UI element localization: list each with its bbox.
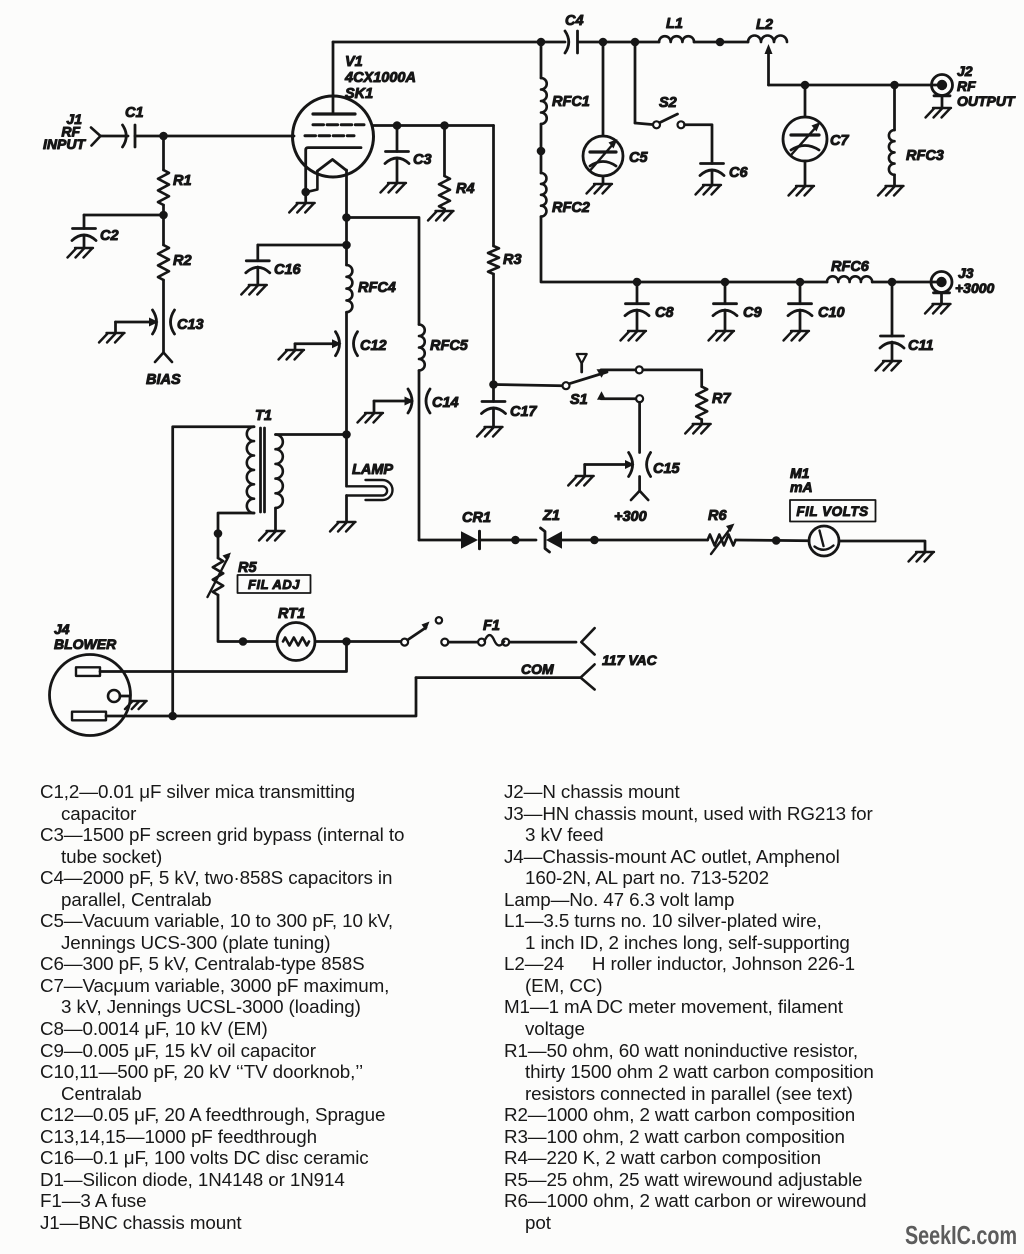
svg-text:Z1: Z1 xyxy=(542,508,560,524)
svg-text:RFC6: RFC6 xyxy=(831,259,870,275)
resistor R7 xyxy=(696,387,731,420)
wire xyxy=(638,402,641,452)
svg-text:INPUT: INPUT xyxy=(43,136,86,152)
svg-text:R3: R3 xyxy=(503,252,522,268)
wire xyxy=(893,175,896,186)
transformer T1 secondary xyxy=(276,435,283,509)
ground xyxy=(289,203,315,213)
junction arrowhead xyxy=(405,397,415,406)
wire xyxy=(694,41,748,44)
wire xyxy=(162,280,165,352)
node +300 terminal xyxy=(614,491,648,525)
svg-text:+3000: +3000 xyxy=(955,280,995,296)
capacitor C10 xyxy=(788,304,845,321)
wire xyxy=(700,420,703,425)
fuse F1 xyxy=(478,618,509,646)
svg-text:J3: J3 xyxy=(958,265,974,281)
svg-text:+300: +300 xyxy=(614,509,647,525)
node grid junction xyxy=(159,132,168,141)
wire xyxy=(101,135,129,138)
capacitor C2 xyxy=(72,228,119,244)
svg-text:C5: C5 xyxy=(629,150,648,166)
svg-text:FIL VOLTS: FIL VOLTS xyxy=(796,504,868,519)
capacitor C11 xyxy=(880,336,934,354)
svg-text:BLOWER: BLOWER xyxy=(54,636,117,652)
ground xyxy=(99,333,125,343)
wire xyxy=(295,342,333,345)
svg-text:V1: V1 xyxy=(345,54,363,70)
wire xyxy=(583,465,586,477)
wire xyxy=(345,312,348,434)
wire xyxy=(636,310,639,331)
node T1 primary bottom junction xyxy=(214,529,223,538)
wire xyxy=(602,42,605,136)
ground xyxy=(709,331,735,341)
node RFC5 branch junction xyxy=(342,213,351,222)
inductor L1 xyxy=(659,16,694,42)
node cathode junction xyxy=(301,188,310,197)
svg-text:R1: R1 xyxy=(173,173,192,189)
switch S1 pole xyxy=(563,372,608,408)
svg-text:LAMP: LAMP xyxy=(352,462,393,478)
zener Z1 xyxy=(541,508,563,552)
inductor RFC2 xyxy=(541,173,590,217)
node T1-lamp junction xyxy=(342,430,351,439)
connector J2 xyxy=(932,63,1017,109)
svg-text:R4: R4 xyxy=(456,181,475,197)
wire xyxy=(106,678,416,716)
wire xyxy=(416,676,580,679)
wire xyxy=(799,282,802,304)
svg-text:RFC4: RFC4 xyxy=(358,280,396,296)
switch S1 open position marker xyxy=(577,354,587,372)
svg-text:RFC5: RFC5 xyxy=(430,338,469,354)
svg-text:C9: C9 xyxy=(743,305,762,321)
capacitor C7 vacuum variable xyxy=(783,117,849,161)
svg-text:C14: C14 xyxy=(432,395,459,411)
wire xyxy=(304,192,307,203)
wire xyxy=(347,218,420,325)
ground xyxy=(784,331,810,341)
node lamp-line junction xyxy=(342,637,351,646)
svg-text:J4: J4 xyxy=(54,621,70,637)
svg-text:L2: L2 xyxy=(756,17,773,33)
wire xyxy=(448,641,478,644)
wire xyxy=(374,124,494,127)
node plate-RFC1 junction xyxy=(537,38,546,47)
svg-text:R5: R5 xyxy=(238,560,257,576)
node blower line junction xyxy=(168,712,177,721)
svg-text:S2: S2 xyxy=(659,95,677,111)
svg-text:R6: R6 xyxy=(708,508,727,524)
capacitor C14 feedthrough xyxy=(408,389,459,413)
wire xyxy=(100,642,347,672)
wire xyxy=(562,539,708,542)
wire xyxy=(492,385,495,402)
node C11 junction xyxy=(888,278,897,287)
svg-text:FIL ADJ: FIL ADJ xyxy=(248,577,300,592)
tube plate pin wire xyxy=(332,42,335,114)
wire xyxy=(891,342,894,361)
wire xyxy=(804,85,807,117)
ground xyxy=(381,183,407,193)
wire xyxy=(373,401,376,413)
wire xyxy=(83,235,86,248)
ground xyxy=(621,331,647,341)
node R1-R2 junction xyxy=(159,211,168,220)
capacitor C6 xyxy=(700,164,748,182)
svg-text:J2: J2 xyxy=(957,63,973,79)
svg-text:C12: C12 xyxy=(360,338,387,354)
inductor RFC3 xyxy=(889,85,944,175)
node R6-M1 junction xyxy=(772,536,781,545)
capacitor C17 xyxy=(482,402,538,421)
wire xyxy=(419,539,461,542)
svg-text:BIAS: BIAS xyxy=(146,372,181,388)
wire xyxy=(638,477,641,491)
ground xyxy=(685,424,711,434)
svg-text:RT1: RT1 xyxy=(278,606,305,622)
wire xyxy=(396,126,399,152)
wire xyxy=(443,209,446,211)
svg-text:C13: C13 xyxy=(177,317,204,333)
wire xyxy=(799,310,802,331)
inductor RFC6 xyxy=(827,259,872,282)
connector J1 RF INPUT xyxy=(43,111,101,152)
node S2 junction xyxy=(631,38,640,47)
capacitor C12 feedthrough xyxy=(336,332,387,356)
diode CR1 xyxy=(461,510,491,549)
node R4 junction xyxy=(440,121,449,130)
svg-text:RFC1: RFC1 xyxy=(552,94,590,110)
tube grid dashes row 2 xyxy=(305,134,354,137)
node R5-RT1 junction xyxy=(239,637,248,646)
svg-text:C6: C6 xyxy=(729,165,748,181)
node C7 junction xyxy=(801,81,810,90)
svg-text:117 VAC: 117 VAC xyxy=(602,652,658,668)
svg-text:RF: RF xyxy=(957,78,976,94)
tube plate bar xyxy=(313,112,355,115)
connector J4 blower outlet xyxy=(50,621,131,736)
capacitor C13 feedthrough xyxy=(153,310,204,334)
tube screen line and pin xyxy=(306,148,361,192)
capacitor C1 xyxy=(123,105,144,147)
svg-text:C1: C1 xyxy=(125,105,144,121)
ground xyxy=(789,186,815,196)
wire xyxy=(769,84,941,87)
svg-text:C16: C16 xyxy=(274,262,302,278)
svg-text:RFC3: RFC3 xyxy=(906,148,944,164)
node C8 junction xyxy=(633,278,642,287)
ground xyxy=(925,304,951,314)
wire xyxy=(294,344,297,350)
capacitor C4 xyxy=(565,13,584,53)
meter M1 xyxy=(790,465,839,556)
tube grid dashes row 1 xyxy=(313,123,364,126)
switch S1 throw 1 xyxy=(597,366,643,377)
svg-text:C3: C3 xyxy=(413,152,432,168)
capacitor C16 xyxy=(246,261,302,278)
ground xyxy=(68,248,94,258)
wire xyxy=(345,435,348,487)
wire xyxy=(480,539,537,542)
wire xyxy=(162,205,165,215)
wire xyxy=(114,322,117,333)
wire xyxy=(711,170,714,185)
wire xyxy=(637,281,827,284)
wire xyxy=(315,640,401,643)
wire xyxy=(839,541,925,552)
junction arrowhead xyxy=(625,460,635,469)
wire xyxy=(872,281,939,284)
svg-text:C11: C11 xyxy=(908,338,934,354)
wire xyxy=(736,539,809,543)
node Z1-R6 junction xyxy=(590,536,599,545)
wire xyxy=(333,41,565,44)
connector 117 VAC common xyxy=(521,661,595,690)
wire xyxy=(685,125,713,164)
ground xyxy=(259,531,285,541)
capacitor C3 xyxy=(385,152,432,169)
lamp pilot xyxy=(347,462,394,500)
ground xyxy=(696,185,722,195)
wire xyxy=(941,96,944,108)
parts list right column xyxy=(504,781,874,1233)
wire xyxy=(162,136,165,170)
inductor L2 roller xyxy=(748,17,787,42)
wire xyxy=(492,408,495,427)
svg-text:RFC2: RFC2 xyxy=(552,200,590,216)
ground xyxy=(568,476,594,486)
inductor RFC4 xyxy=(347,265,396,312)
svg-text:C10: C10 xyxy=(818,305,845,321)
node C3 junction xyxy=(393,121,402,130)
ground xyxy=(279,350,305,360)
svg-text:C17: C17 xyxy=(510,404,538,420)
svg-text:C2: C2 xyxy=(100,228,119,244)
capacitor C8 xyxy=(625,304,674,321)
wire xyxy=(116,321,151,324)
ground xyxy=(587,184,613,194)
ground xyxy=(876,361,902,371)
switch S1 throw 2 xyxy=(597,391,643,402)
ground xyxy=(330,522,356,532)
ground xyxy=(926,108,952,118)
wire xyxy=(345,496,348,522)
wire xyxy=(891,282,894,336)
capacitor C15 feedthrough xyxy=(629,453,681,478)
svg-text:C4: C4 xyxy=(565,13,584,29)
ground xyxy=(428,211,454,221)
resistor R1 xyxy=(158,170,192,205)
svg-text:S1: S1 xyxy=(570,392,588,408)
wire xyxy=(276,433,347,436)
svg-text:R7: R7 xyxy=(712,391,731,407)
wire xyxy=(643,370,702,387)
node L1-L2 junction xyxy=(716,38,725,47)
thermistor RT1 xyxy=(277,606,315,661)
resistor R6 pot xyxy=(708,508,736,554)
svg-text:C15: C15 xyxy=(653,461,681,477)
node RFC3 junction xyxy=(890,81,899,90)
wire xyxy=(635,42,652,125)
resistor R5 adjustable xyxy=(208,553,258,598)
svg-text:R2: R2 xyxy=(173,253,192,269)
svg-text:F1: F1 xyxy=(483,618,500,634)
node C4-C5 junction xyxy=(599,38,608,47)
wire xyxy=(492,274,495,385)
wire xyxy=(396,158,399,183)
L2 tap arrow xyxy=(765,44,773,85)
wire xyxy=(540,42,543,78)
resistor R2 xyxy=(158,245,192,280)
svg-text:4CX1000A: 4CX1000A xyxy=(344,70,416,86)
ground xyxy=(878,186,904,196)
wire xyxy=(443,126,446,177)
wire xyxy=(578,41,659,44)
svg-text:OUTPUT: OUTPUT xyxy=(957,93,1016,109)
wire xyxy=(509,641,576,644)
label FIL ADJ box xyxy=(238,575,311,593)
connector J3 xyxy=(931,265,995,296)
wire xyxy=(540,124,543,173)
wire xyxy=(162,215,165,245)
svg-text:mA: mA xyxy=(790,479,813,495)
ground xyxy=(241,285,266,295)
resistor R3 xyxy=(488,246,522,274)
switch S2 xyxy=(653,95,685,128)
ground xyxy=(125,701,147,709)
inductor RFC5 xyxy=(419,325,469,371)
node RFC1-RFC2 junction xyxy=(537,147,546,156)
svg-text:C8: C8 xyxy=(655,305,674,321)
capacitor C5 vacuum variable xyxy=(583,136,648,176)
wire xyxy=(120,696,130,701)
wire xyxy=(541,217,637,282)
inductor RFC1 xyxy=(541,78,590,124)
wire xyxy=(218,513,254,558)
junction arrowhead xyxy=(332,339,342,348)
wire xyxy=(492,126,495,247)
svg-text:SK1: SK1 xyxy=(345,86,373,102)
wire xyxy=(940,293,943,304)
wire xyxy=(256,267,259,285)
node C10 junction xyxy=(796,278,805,287)
svg-text:CR1: CR1 xyxy=(462,510,491,526)
wire xyxy=(173,427,254,716)
node R3-S1 junction xyxy=(489,380,498,389)
wire xyxy=(418,371,421,541)
transformer T1 primary xyxy=(247,408,272,513)
wire xyxy=(135,135,294,138)
ground xyxy=(358,413,384,423)
wire xyxy=(494,385,563,386)
node C16 branch junction xyxy=(342,241,351,250)
svg-text:C7: C7 xyxy=(830,133,849,149)
tube V1 4CX1000A envelope xyxy=(293,54,416,177)
node BIAS terminal xyxy=(146,353,181,389)
wire xyxy=(258,245,347,261)
switch power xyxy=(401,617,448,646)
svg-text:COM: COM xyxy=(521,661,554,677)
wire xyxy=(374,400,406,403)
ground xyxy=(477,427,503,437)
tube heater left pin xyxy=(308,171,318,192)
svg-text:T1: T1 xyxy=(255,408,272,424)
parts list left column xyxy=(40,781,404,1233)
meter label FIL VOLTS box xyxy=(790,500,876,522)
ground xyxy=(909,552,935,562)
connector 117 VAC hot xyxy=(581,628,657,668)
wire xyxy=(636,282,639,304)
wire xyxy=(602,176,605,184)
wire xyxy=(274,508,277,531)
tube heater xyxy=(317,160,346,172)
wire xyxy=(218,595,277,642)
svg-text:L1: L1 xyxy=(666,16,683,32)
wire xyxy=(585,463,626,466)
wire xyxy=(804,161,807,186)
watermark xyxy=(905,1220,1017,1251)
resistor R4 xyxy=(439,176,475,209)
junction arrowhead xyxy=(149,318,159,327)
wire xyxy=(724,310,727,331)
wire xyxy=(345,170,348,265)
capacitor C9 xyxy=(713,304,762,321)
node CR1-Z1 junction xyxy=(511,536,520,545)
node C9 junction xyxy=(721,278,730,287)
transformer T1 core xyxy=(261,428,265,512)
wire xyxy=(84,215,164,229)
wire xyxy=(724,282,727,304)
